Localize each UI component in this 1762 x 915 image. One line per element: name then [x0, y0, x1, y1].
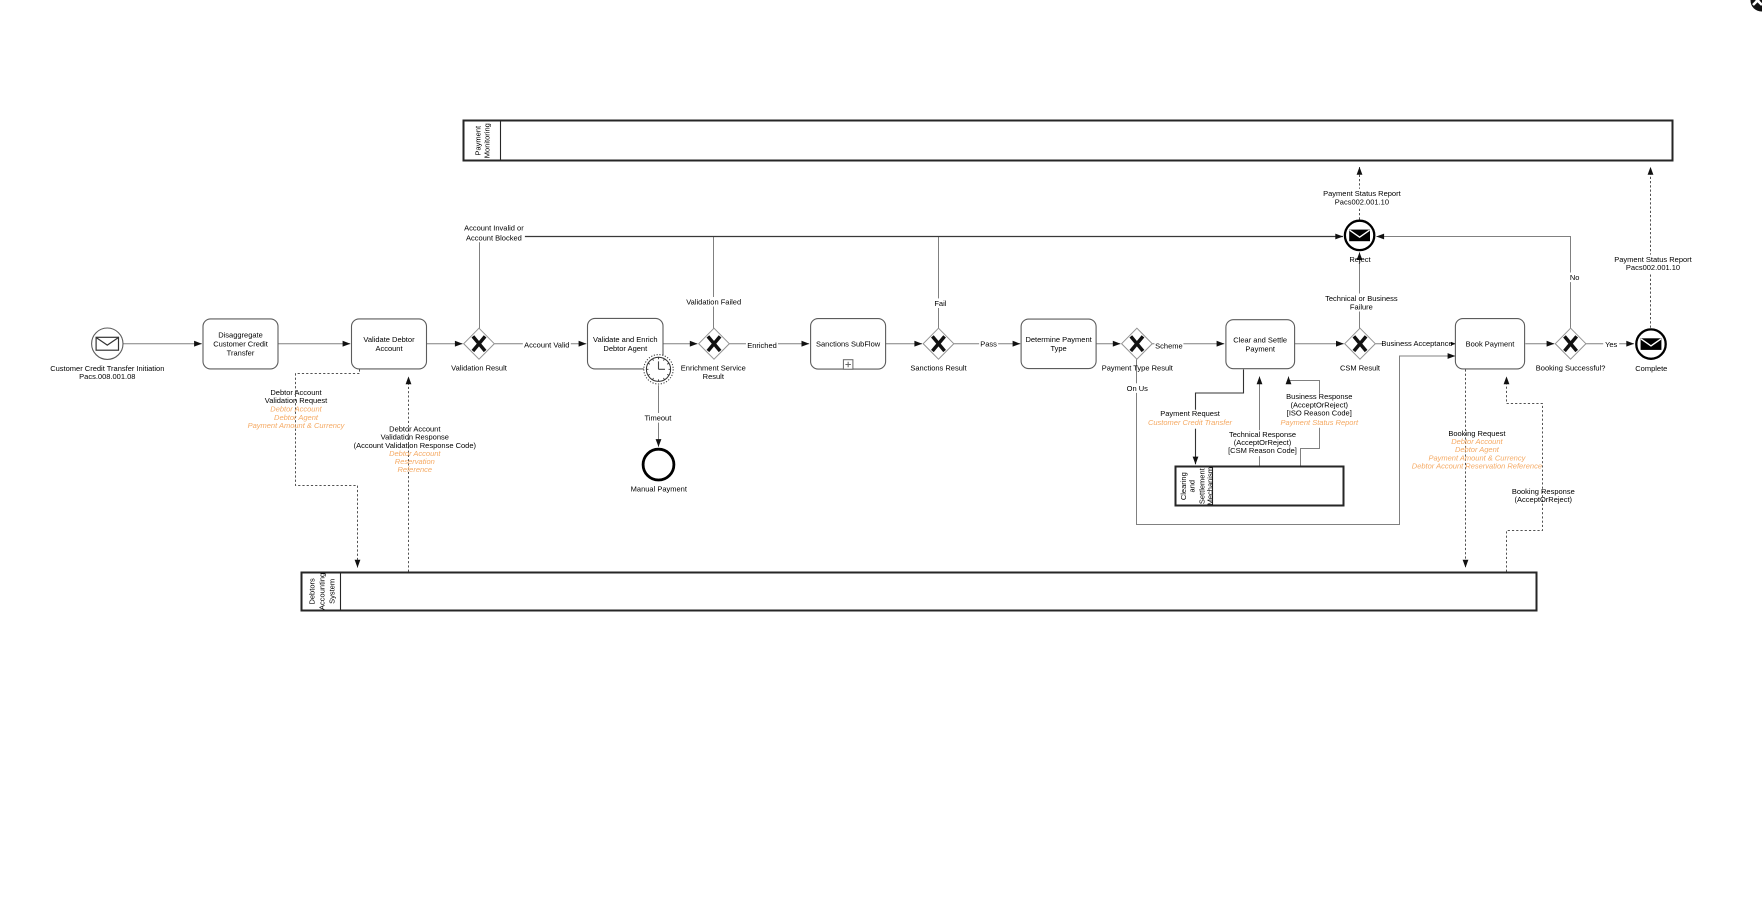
svg-text:Business Acceptance: Business Acceptance	[1381, 339, 1452, 348]
svg-text:Payment Status Report: Payment Status Report	[1281, 418, 1359, 427]
svg-text:Fail: Fail	[934, 299, 946, 308]
start event Customer Credit Transfer Initiation	[50, 328, 164, 381]
svg-text:[CSM Reason Code]: [CSM Reason Code]	[1228, 446, 1297, 455]
pool Payment Monitoring	[464, 121, 1673, 161]
wire Timeout to Manual Payment	[658, 385, 660, 447]
wire Validate and Enrich to Enrichment gateway	[663, 343, 697, 345]
wire Reject to Payment Monitoring pool (dashed)	[1359, 167, 1361, 220]
svg-text:Account Valid: Account Valid	[524, 341, 569, 350]
wire Book Payment to Booking Successful	[1525, 343, 1554, 345]
svg-text:Debtor Account Reservation Ref: Debtor Account Reservation Reference	[1412, 461, 1542, 470]
svg-text:Debtor Agent: Debtor Agent	[603, 344, 648, 353]
label Fail	[932, 298, 948, 308]
label Business Response	[1286, 394, 1352, 428]
label Account Invalid or Account Blocked	[463, 223, 525, 242]
svg-text:Customer Credit: Customer Credit	[213, 340, 269, 349]
task Validate and Enrich Debtor Agent	[588, 318, 664, 369]
svg-text:Reject: Reject	[1349, 255, 1371, 264]
wire Booking Response (dashed)	[1507, 377, 1543, 572]
label Technical Response	[1230, 430, 1296, 456]
wire Account Valid	[494, 343, 586, 345]
svg-text:Mechanism: Mechanism	[1206, 467, 1215, 505]
svg-text:Sanctions SubFlow: Sanctions SubFlow	[816, 340, 881, 349]
svg-text:Pacs002.001.10: Pacs002.001.10	[1335, 197, 1389, 206]
svg-text:Validate and Enrich: Validate and Enrich	[593, 335, 658, 344]
label No	[1568, 273, 1582, 283]
subprocess marker on Sanctions SubFlow	[843, 360, 853, 370]
wire Validation Failed up	[713, 236, 715, 329]
svg-text:Pacs002.001.10: Pacs002.001.10	[1626, 263, 1680, 272]
svg-text:Validation Failed: Validation Failed	[686, 298, 741, 307]
wire start to Disaggregate	[123, 343, 202, 345]
wire Enriched	[729, 343, 809, 345]
gateway Sanctions Result	[910, 328, 967, 373]
wire Determine Payment Type to Payment Type Result	[1097, 343, 1121, 345]
wire Disaggregate to Validate Debtor Account	[278, 343, 350, 345]
svg-text:Sanctions Result: Sanctions Result	[910, 364, 967, 373]
svg-text:Payment: Payment	[1245, 344, 1276, 353]
label Pass	[979, 339, 998, 349]
label Yes	[1603, 339, 1619, 349]
svg-text:Pass: Pass	[980, 340, 997, 349]
label Timeout	[644, 413, 672, 423]
svg-text:Type: Type	[1050, 344, 1066, 353]
gateway Payment Type Result	[1102, 328, 1174, 373]
svg-text:Failure: Failure	[1350, 302, 1373, 311]
svg-text:Transfer: Transfer	[227, 349, 255, 358]
svg-text:Payment Type Result: Payment Type Result	[1102, 364, 1174, 373]
wire Debtor Account Validation Response (dashed)	[408, 377, 410, 572]
svg-text:and: and	[1187, 480, 1196, 493]
wire Validate Debtor Account to Validation Result	[427, 343, 463, 345]
svg-text:Accounting: Accounting	[318, 573, 327, 610]
svg-text:On Us: On Us	[1127, 384, 1149, 393]
wire Fail up	[938, 236, 940, 329]
svg-text:Account: Account	[375, 344, 403, 353]
wire Scheme	[1152, 343, 1224, 345]
intermediate event Reject	[1345, 221, 1374, 264]
wire Clear and Settle to CSM Result	[1295, 343, 1344, 345]
label Business Acceptance	[1383, 339, 1451, 349]
svg-text:No: No	[1570, 273, 1580, 282]
wire On Us branch	[1137, 356, 1456, 525]
wire Payment Request message	[1196, 369, 1244, 464]
svg-text:Determine Payment: Determine Payment	[1025, 335, 1092, 344]
wire Complete to Payment Monitoring pool (dashed)	[1650, 167, 1652, 328]
svg-text:Account Invalid or: Account Invalid or	[464, 224, 524, 233]
svg-text:[ISO Reason Code]: [ISO Reason Code]	[1287, 408, 1352, 417]
svg-text:Payment Request: Payment Request	[1160, 409, 1221, 418]
pool Debtors Accounting System	[302, 573, 1537, 611]
wire Debtor Account Validation Request (dashed)	[296, 369, 360, 567]
pool Clearing and Settlement Mechanism	[1176, 467, 1344, 506]
label Account Valid	[523, 340, 571, 350]
wire No branch to Reject	[1376, 237, 1570, 329]
svg-text:Debtors: Debtors	[307, 578, 316, 605]
svg-text:Customer Credit Transfer: Customer Credit Transfer	[1148, 418, 1233, 427]
svg-text:Validate Debtor: Validate Debtor	[363, 335, 415, 344]
wire Sanctions SubFlow to Sanctions Result	[886, 343, 922, 345]
gateway Booking Successful?	[1536, 328, 1606, 373]
label Validation Failed	[688, 297, 740, 307]
wire Pass	[954, 343, 1020, 345]
svg-text:Clear and Settle: Clear and Settle	[1233, 335, 1287, 344]
task Determine Payment Type	[1021, 319, 1096, 369]
corner icon (cut-off black circle with white cross)	[1751, 0, 1762, 12]
svg-text:Complete: Complete	[1635, 364, 1667, 373]
svg-text:System: System	[327, 579, 336, 604]
label Scheme	[1154, 341, 1183, 351]
wire CSM Result up to Reject	[1359, 252, 1361, 328]
gateway Validation Result	[451, 328, 508, 373]
end event Complete	[1635, 329, 1667, 372]
gateway CSM Result	[1340, 328, 1381, 373]
svg-text:Reference: Reference	[397, 465, 432, 474]
svg-text:Scheme: Scheme	[1155, 341, 1183, 350]
wire Technical Response message	[1259, 377, 1261, 467]
wire Validation Result up	[479, 236, 481, 329]
boundary timer event on Validate and Enrich Debtor Agent	[644, 355, 673, 384]
svg-text:Monitoring: Monitoring	[482, 123, 491, 158]
label Technical or Business Failure	[1328, 294, 1394, 312]
svg-text:Manual Payment: Manual Payment	[631, 485, 688, 494]
svg-text:(AcceptOrReject): (AcceptOrReject)	[1515, 495, 1573, 504]
label Payment Status Report at Complete	[1617, 255, 1689, 273]
label On Us	[1126, 383, 1148, 393]
task Book Payment	[1455, 319, 1524, 369]
wire Booking Request (dashed)	[1465, 369, 1467, 567]
wire Business Response message	[1289, 377, 1320, 467]
task Clear and Settle Payment	[1226, 320, 1295, 369]
svg-text:Result: Result	[703, 372, 725, 381]
wire Yes	[1586, 343, 1634, 345]
label Payment Request	[1145, 410, 1235, 429]
svg-text:Timeout: Timeout	[644, 414, 672, 423]
svg-text:Account Blocked: Account Blocked	[466, 233, 522, 242]
svg-text:Disaggregate: Disaggregate	[218, 331, 263, 340]
wire Business Acceptance	[1375, 343, 1455, 345]
label Payment Status Report at Reject	[1326, 189, 1398, 207]
svg-text:Payment Amount & Currency: Payment Amount & Currency	[248, 421, 346, 430]
end event Manual Payment	[631, 449, 688, 494]
task Sanctions SubFlow	[811, 319, 886, 370]
gateway Enrichment Service Result	[681, 328, 746, 381]
svg-text:Book Payment: Book Payment	[1466, 339, 1516, 348]
svg-text:Validation Result: Validation Result	[451, 364, 508, 373]
wire reject collector to Reject event	[480, 236, 1344, 238]
svg-text:Yes: Yes	[1605, 340, 1617, 349]
svg-text:Enriched: Enriched	[747, 341, 777, 350]
task Validate Debtor Account	[352, 319, 427, 369]
task Disaggregate Customer Credit Transfer	[203, 319, 278, 369]
svg-text:Pacs.008.001.08: Pacs.008.001.08	[79, 372, 135, 381]
label Enriched	[746, 341, 778, 351]
svg-text:CSM Result: CSM Result	[1340, 364, 1381, 373]
svg-text:Booking Successful?: Booking Successful?	[1536, 364, 1606, 373]
